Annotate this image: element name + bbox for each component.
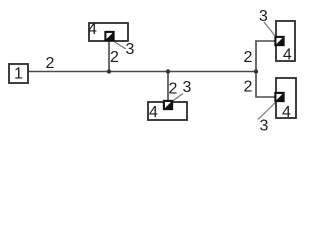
svg-text:4: 4 xyxy=(149,104,158,121)
svg-text:2: 2 xyxy=(46,55,55,72)
svg-text:4: 4 xyxy=(88,21,97,38)
svg-text:3: 3 xyxy=(260,118,269,135)
svg-text:3: 3 xyxy=(183,79,192,96)
svg-text:1: 1 xyxy=(14,66,23,83)
svg-text:2: 2 xyxy=(244,79,253,96)
svg-text:3: 3 xyxy=(126,41,135,58)
svg-text:4: 4 xyxy=(282,104,291,121)
svg-text:2: 2 xyxy=(110,49,119,66)
svg-text:2: 2 xyxy=(244,49,253,66)
svg-text:2: 2 xyxy=(169,81,178,98)
svg-text:3: 3 xyxy=(259,8,268,25)
svg-text:4: 4 xyxy=(283,47,292,64)
